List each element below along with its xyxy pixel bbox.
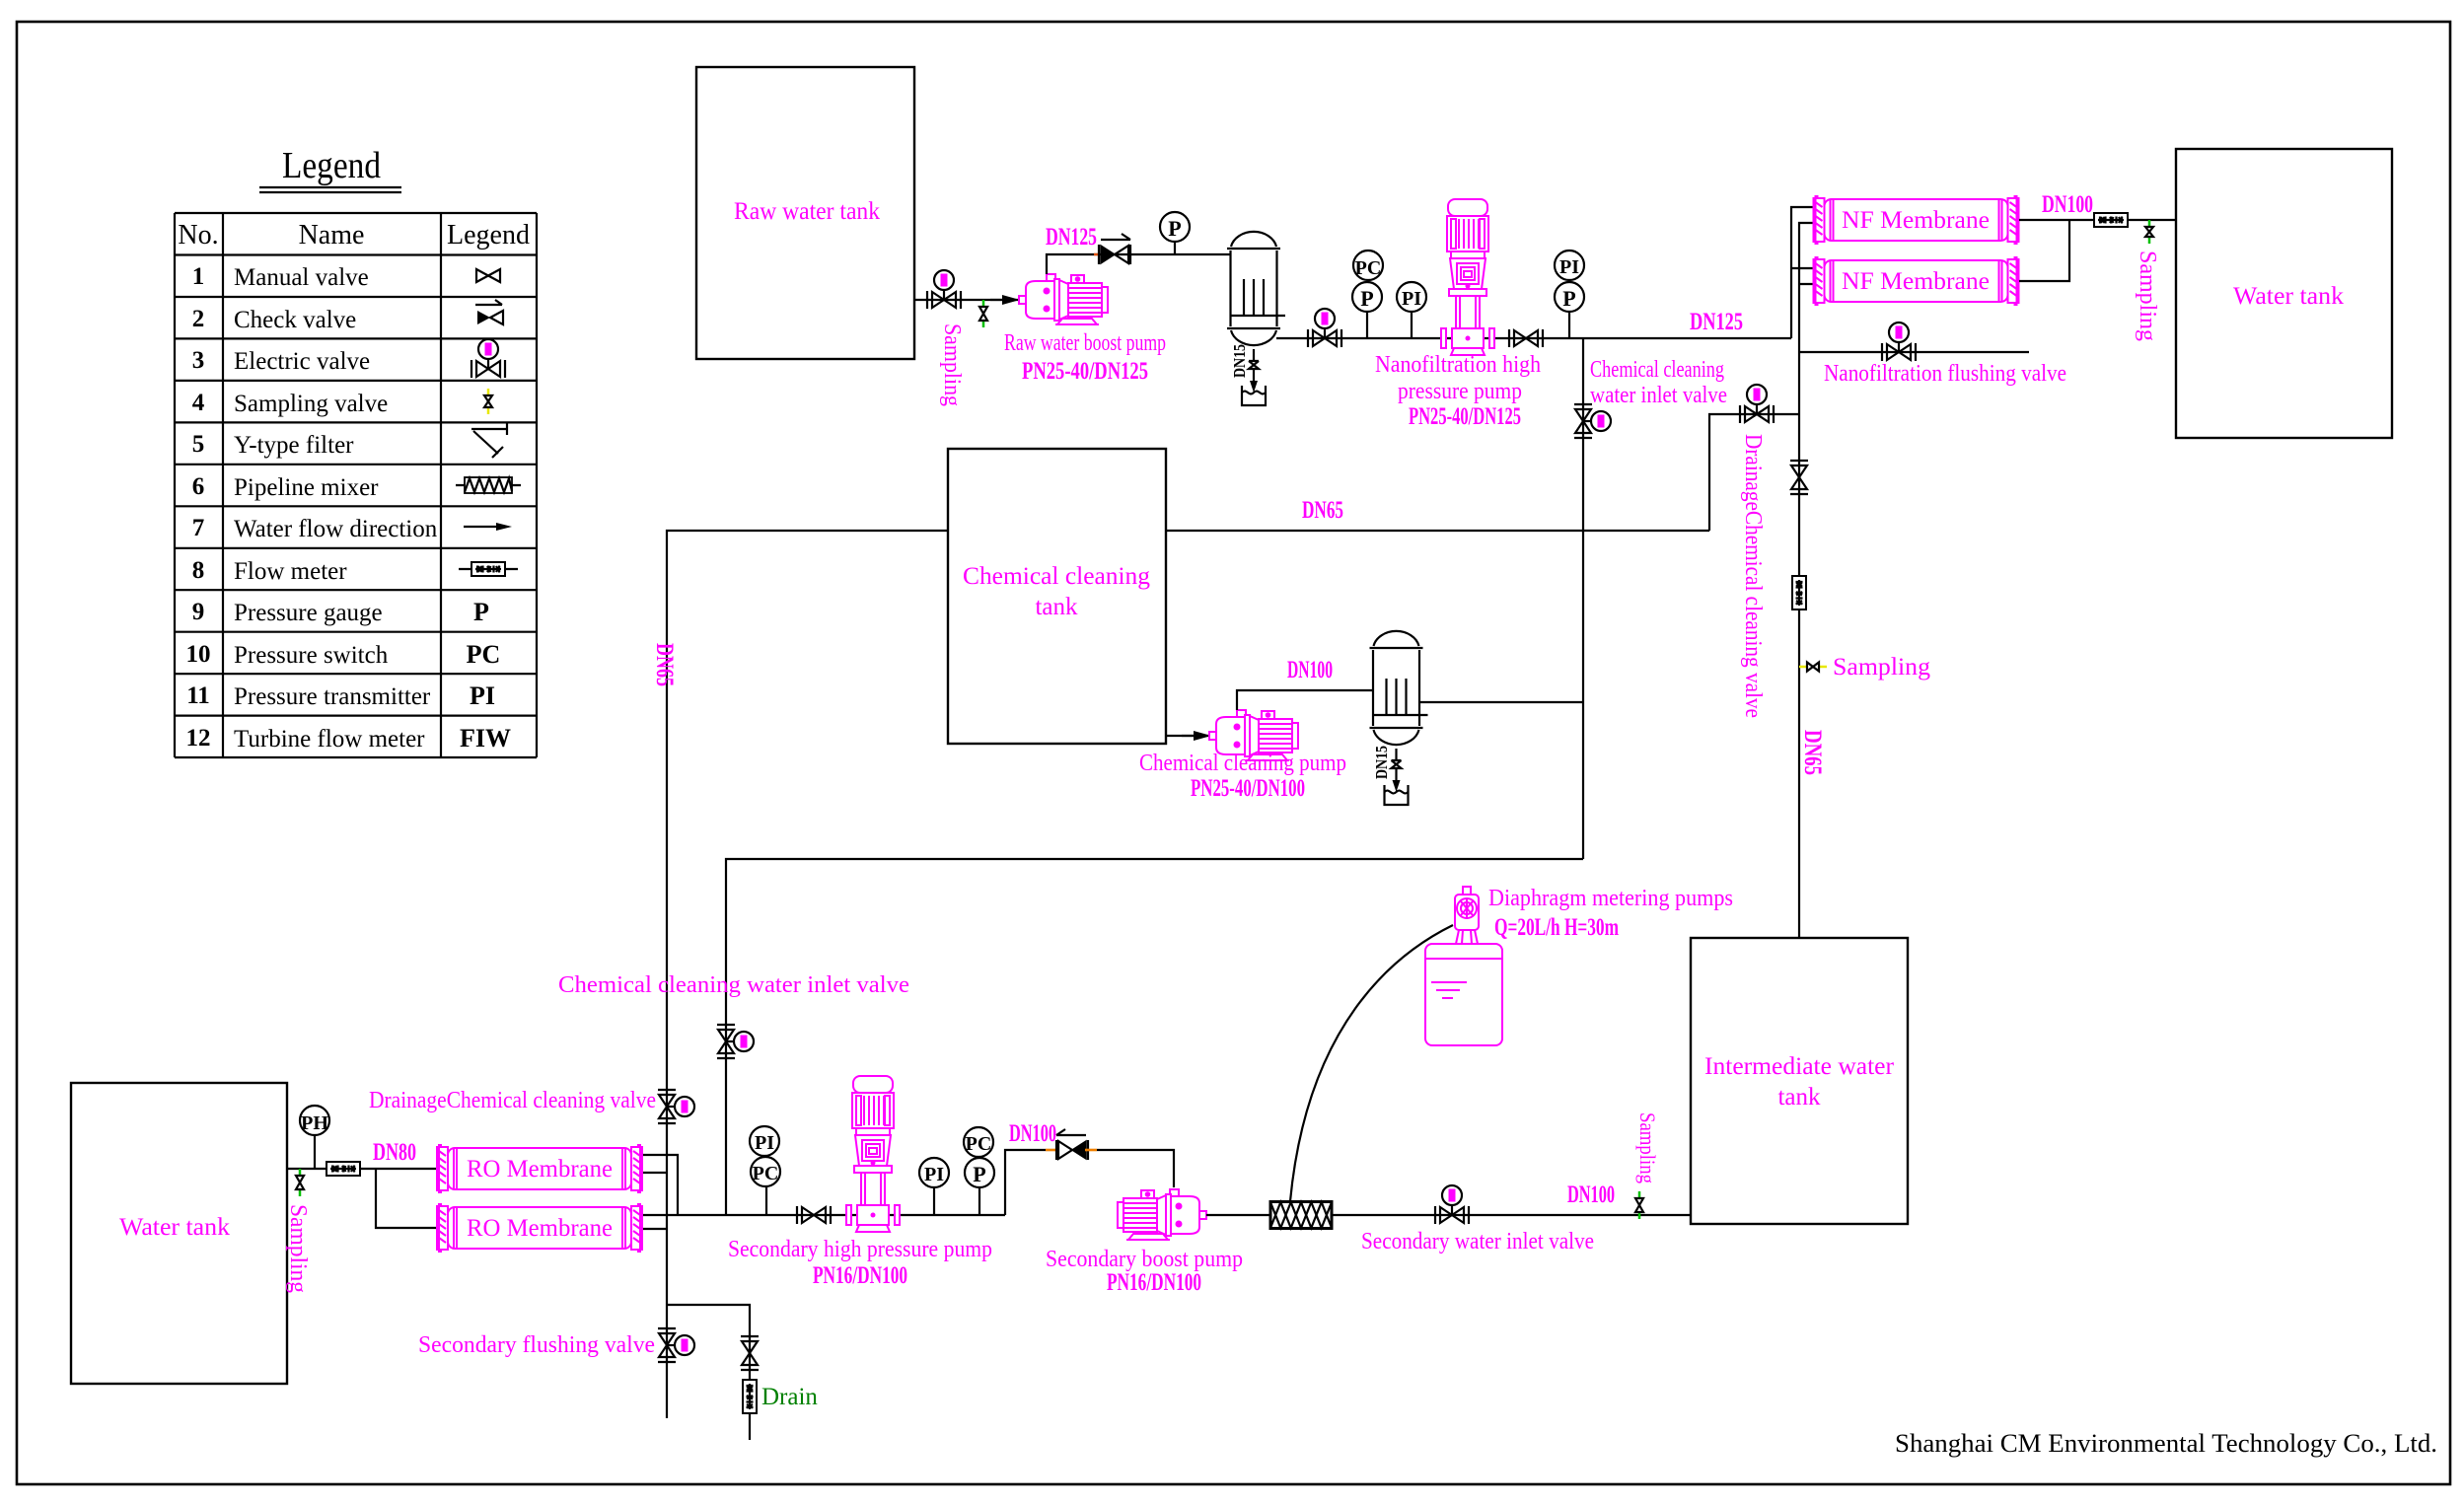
svg-text:Legend: Legend: [447, 220, 530, 251]
legend row 9 pressure gauge: [192, 598, 489, 626]
raw water tank: [696, 67, 914, 359]
svg-text:tank: tank: [1035, 594, 1078, 620]
svg-text:DN65: DN65: [651, 643, 678, 686]
svg-text:DN100: DN100: [1009, 1120, 1056, 1147]
svg-text:PN25-40/DN125: PN25-40/DN125: [1409, 403, 1521, 430]
svg-text:PN16/DN100: PN16/DN100: [813, 1262, 907, 1289]
legend row 11 pressure transmitter: [186, 681, 495, 710]
wire: raw pump discharge: [1047, 254, 1230, 274]
svg-text:PI: PI: [924, 1164, 944, 1185]
RO membrane 1: [437, 1145, 642, 1192]
svg-text:PC: PC: [467, 640, 501, 669]
wire: raw tank outlet: [914, 299, 1019, 301]
flow meter RO feed: [326, 1162, 360, 1176]
NF membrane 2: [1814, 257, 2019, 305]
svg-text:DN100: DN100: [2042, 191, 2093, 218]
wire: mixer to intermediate tank: [1332, 1214, 1691, 1216]
legend row 12 turbine flow meter: [186, 724, 512, 752]
svg-text:Raw water tank: Raw water tank: [734, 198, 880, 225]
wire: RO feed line: [287, 1168, 436, 1170]
diaphragm metering pump: [1455, 887, 1479, 944]
dosing tank: [1425, 944, 1502, 1045]
svg-text:Electric valve: Electric valve: [234, 348, 370, 375]
intermediate water tank: [1691, 938, 1908, 1224]
svg-text:Sampling: Sampling: [1635, 1112, 1660, 1183]
wire: line A drain branch: [667, 1305, 750, 1440]
wire: NF concentrate line x1824: [1799, 223, 1813, 938]
svg-text:Nanofiltration flushing valve: Nanofiltration flushing valve: [1824, 361, 2066, 387]
wire: m1 upper port to main: [643, 1155, 678, 1215]
svg-text:tank: tank: [1777, 1084, 1821, 1111]
svg-text:Intermediate water: Intermediate water: [1704, 1053, 1895, 1080]
legend row 2 check valve: [192, 300, 503, 333]
legend row 6 pipeline mixer: [192, 473, 521, 501]
wire: chem inlet drop x1605: [1582, 338, 1584, 859]
svg-text:Pressure switch: Pressure switch: [234, 642, 389, 669]
svg-text:9: 9: [192, 599, 205, 625]
pipeline mixer: [1270, 1202, 1332, 1229]
svg-text:8: 8: [192, 557, 205, 584]
flow meter drain (vertical): [743, 1380, 757, 1413]
svg-text:PN16/DN100: PN16/DN100: [1107, 1269, 1201, 1296]
svg-text:PC: PC: [966, 1133, 992, 1155]
svg-text:DN80: DN80: [373, 1139, 416, 1166]
svg-text:DN125: DN125: [1046, 224, 1097, 251]
svg-text:Chemical cleaning: Chemical cleaning: [1590, 357, 1724, 383]
svg-text:Shanghai CM Environmental Tech: Shanghai CM Environmental Technology Co.…: [1895, 1429, 2437, 1458]
wire: chem pump discharge DN100: [1237, 690, 1372, 710]
svg-text:PI: PI: [470, 681, 495, 710]
svg-text:6: 6: [192, 473, 205, 500]
legend row 10 pressure switch: [186, 640, 501, 669]
svg-text:DN65: DN65: [1302, 497, 1343, 524]
svg-text:10: 10: [186, 641, 211, 668]
wire: vessel1 drain stub: [1253, 349, 1255, 353]
svg-text:7: 7: [192, 515, 205, 541]
legend row 8 flow meter: [192, 557, 518, 585]
gauges PC/P after valve: [1352, 251, 1383, 338]
legend row 1 manual valve: [192, 263, 500, 291]
svg-text:P: P: [973, 1162, 985, 1186]
gauges PI/PC left of secondary pump: [750, 1126, 780, 1215]
sampling valve RO feed: [296, 1169, 304, 1196]
legend row 4 sampling valve: [192, 389, 492, 417]
svg-text:DrainageChemical cleaning valv: DrainageChemical cleaning valve: [1740, 434, 1766, 718]
svg-text:water inlet valve: water inlet valve: [1590, 383, 1727, 408]
NF membrane 1: [1814, 196, 2019, 244]
raw water boost pump: [1019, 274, 1108, 324]
svg-text:Nanofiltration high: Nanofiltration high: [1375, 352, 1541, 378]
orange segment left: [1046, 1149, 1059, 1152]
gauges PI/P after NF pump: [1555, 251, 1584, 338]
svg-text:Check valve: Check valve: [234, 307, 356, 333]
wire: vessel2 outlet to x1605: [1420, 701, 1583, 703]
svg-text:1: 1: [192, 263, 205, 290]
check valve after raw pump: [1099, 234, 1130, 264]
svg-text:PI: PI: [1559, 256, 1579, 278]
svg-text:Chemical cleaning water inlet: Chemical cleaning water inlet valve: [558, 972, 909, 998]
svg-text:DN65: DN65: [1799, 730, 1826, 775]
svg-text:Pipeline mixer: Pipeline mixer: [234, 474, 379, 501]
svg-text:Water tank: Water tank: [2233, 283, 2345, 310]
sampling valve before tank: [1635, 1191, 1643, 1219]
svg-text:Turbine flow meter: Turbine flow meter: [234, 726, 425, 752]
vessel2 drain valve+cup: [1385, 752, 1409, 805]
svg-text:FIW: FIW: [460, 724, 511, 752]
gauge PI before NF pump: [1397, 282, 1426, 338]
legend header row: [178, 220, 530, 251]
wire: m2 lower port to line A: [643, 1228, 667, 1230]
wire: DN65 line left of tank: [667, 531, 948, 1418]
legend title: [259, 145, 401, 192]
svg-text:Flow meter: Flow meter: [234, 558, 347, 585]
svg-text:PH: PH: [301, 1112, 328, 1134]
electric valve raw tank outlet: [927, 270, 961, 309]
svg-text:DN15: DN15: [1230, 344, 1249, 378]
svg-text:Chemical cleaning pump: Chemical cleaning pump: [1139, 751, 1346, 776]
wire: NF drainage branch: [1709, 414, 1799, 531]
svg-text:Manual valve: Manual valve: [234, 264, 369, 291]
svg-text:DrainageChemical cleaning valv: DrainageChemical cleaning valve: [369, 1088, 656, 1113]
wire: NF membrane2 permeate riser: [2019, 220, 2069, 281]
svg-text:Sampling: Sampling: [1833, 654, 1931, 681]
svg-text:Secondary water inlet valve: Secondary water inlet valve: [1361, 1229, 1594, 1254]
sampling valve concentrate: [1799, 663, 1827, 672]
legend table grid: [175, 213, 537, 757]
water tank (bottom left): [71, 1083, 287, 1384]
electric valve after vessel1: [1308, 309, 1341, 347]
electric valve line A drainage (bottom): [658, 1090, 694, 1123]
svg-text:Sampling: Sampling: [285, 1204, 311, 1293]
svg-text:Chemical cleaning: Chemical cleaning: [963, 563, 1151, 590]
wire: to boost pump inlet: [1097, 1150, 1174, 1187]
secondary high pressure pump: [846, 1076, 900, 1232]
svg-text:P: P: [1168, 216, 1181, 241]
chemical cleaning tank: [948, 449, 1166, 744]
svg-text:PC: PC: [1355, 257, 1382, 279]
svg-text:No.: No.: [178, 220, 218, 251]
svg-text:Pressure transmitter: Pressure transmitter: [234, 683, 431, 710]
svg-text:P: P: [473, 598, 489, 626]
svg-text:Pressure gauge: Pressure gauge: [234, 600, 383, 626]
svg-text:5: 5: [192, 431, 205, 458]
manual valve after NF pump: [1509, 329, 1543, 347]
svg-text:PI: PI: [755, 1132, 774, 1154]
secondary boost pump (mirrored): [1118, 1189, 1206, 1240]
svg-text:Drain: Drain: [761, 1384, 818, 1410]
svg-text:3: 3: [192, 347, 205, 374]
legend row 7 water flow direction: [192, 515, 512, 542]
wire: secondary discharge riser: [1005, 1150, 1046, 1215]
svg-text:pressure pump: pressure pump: [1398, 379, 1522, 404]
gauges PC/P right of secondary pump: [964, 1127, 994, 1215]
svg-text:NF Membrane: NF Membrane: [1842, 268, 1990, 295]
wire: vessel2 drain stub: [1395, 749, 1397, 752]
svg-text:PC: PC: [753, 1163, 779, 1184]
svg-text:DN15: DN15: [1372, 746, 1391, 779]
svg-text:Sampling: Sampling: [939, 323, 965, 406]
sampling valve NF permeate: [2145, 220, 2153, 244]
manual valve on concentrate line: [1790, 461, 1808, 494]
chemical cleaning pump: [1209, 710, 1298, 760]
svg-text:Name: Name: [299, 220, 365, 251]
electric valve NF flushing: [1882, 322, 1916, 361]
svg-text:Secondary high pressure pump: Secondary high pressure pump: [728, 1237, 992, 1262]
flow meter concentrate (vertical): [1792, 576, 1806, 609]
wire: RO main line to pump: [643, 1214, 1005, 1216]
svg-text:Diaphragm metering pumps: Diaphragm metering pumps: [1488, 886, 1733, 911]
legend row 3 electric valve: [192, 339, 505, 378]
electric valve secondary flushing: [658, 1328, 694, 1362]
vessel1 drain valve+cup: [1242, 353, 1266, 405]
flow arrow into raw pump: [990, 295, 1020, 305]
svg-text:Sampling: Sampling: [2135, 251, 2160, 341]
electric valve line B (chem inlet bottom): [717, 1025, 754, 1058]
wire: NF flushing branch: [1799, 351, 2029, 353]
svg-text:Y-type filter: Y-type filter: [234, 432, 354, 459]
svg-text:PI: PI: [1402, 288, 1421, 310]
curve from diaphragm pump: [1290, 925, 1453, 1201]
filter vessel 2 (chemical): [1370, 631, 1428, 745]
svg-text:Water flow direction: Water flow direction: [234, 516, 438, 542]
sampling valve raw outlet: [979, 300, 987, 327]
orange segment right: [1085, 1149, 1097, 1152]
RO membrane 2: [437, 1204, 642, 1252]
wire: boost pump outlet to mixer: [1206, 1214, 1270, 1216]
svg-text:PN25-40/DN125: PN25-40/DN125: [1022, 358, 1148, 385]
svg-text:P: P: [1562, 286, 1575, 311]
wire: main line y343: [1276, 337, 1791, 339]
svg-text:RO Membrane: RO Membrane: [467, 1215, 613, 1242]
wire: cleaning supply horizontal y871: [726, 859, 1583, 1215]
water tank (top right): [2176, 149, 2392, 438]
electric valve secondary water inlet: [1435, 1185, 1469, 1224]
svg-text:DN125: DN125: [1690, 309, 1743, 335]
svg-text:Sampling valve: Sampling valve: [234, 391, 388, 417]
wire: NF permeate line to water tank: [2019, 219, 2176, 221]
svg-text:Water tank: Water tank: [119, 1214, 231, 1241]
manual valve RO main: [797, 1206, 831, 1224]
svg-text:11: 11: [186, 682, 210, 709]
pressure gauge P (top line): [1160, 212, 1190, 254]
gauge PI right of secondary pump: [919, 1158, 949, 1215]
svg-text:2: 2: [192, 306, 205, 332]
wire: m1 lower port to line A: [643, 1172, 667, 1174]
svg-text:DN100: DN100: [1567, 1182, 1615, 1208]
svg-text:NF Membrane: NF Membrane: [1842, 207, 1990, 234]
legend row 5 y-type filter: [192, 423, 507, 459]
svg-text:12: 12: [186, 725, 211, 752]
svg-text:Secondary flushing valve: Secondary flushing valve: [418, 1332, 655, 1358]
svg-text:4: 4: [192, 390, 205, 416]
wire: NF feed riser x1816: [1791, 207, 1813, 338]
wire: chem pump suction: [1166, 735, 1209, 737]
svg-text:DN100: DN100: [1287, 657, 1333, 683]
svg-text:PN25-40/DN100: PN25-40/DN100: [1191, 775, 1305, 802]
svg-text:P: P: [1360, 286, 1373, 311]
svg-text:Raw water boost pump: Raw water boost pump: [1004, 330, 1166, 356]
svg-text:RO Membrane: RO Membrane: [467, 1156, 613, 1182]
svg-text:Legend: Legend: [282, 145, 381, 186]
electric valve chem inlet (vertical): [1574, 404, 1611, 438]
electric valve NF drainage: [1740, 385, 1774, 423]
PH gauge: [300, 1106, 329, 1169]
flow arrow into chem pump: [1182, 731, 1211, 741]
check valve secondary (flow left arrow): [1056, 1129, 1088, 1160]
orange dash before raw check valve: [1094, 253, 1098, 255]
filter vessel 1: [1227, 232, 1285, 345]
wire: DN65 line right of tank: [1166, 530, 1709, 532]
nanofiltration high pressure pump: [1441, 199, 1494, 355]
flow meter NF permeate: [2094, 213, 2128, 227]
manual valve drain branch: [741, 1336, 759, 1370]
wire: RO feed branch to membrane2: [376, 1169, 436, 1228]
svg-text:Q=20L/h H=30m: Q=20L/h H=30m: [1494, 914, 1619, 941]
